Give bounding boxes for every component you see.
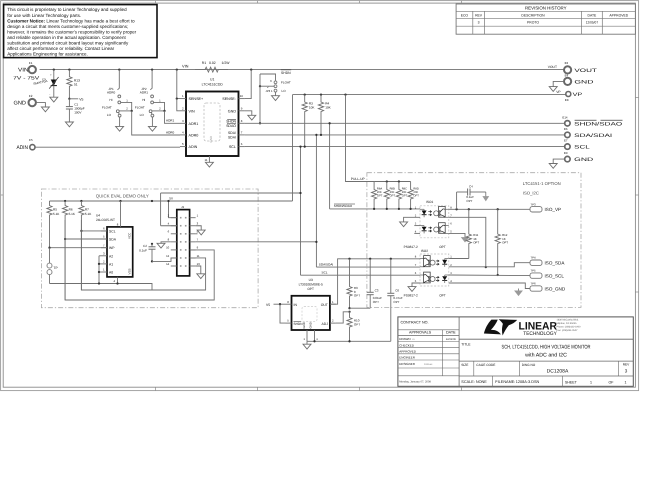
wire JP1 LO to ground <box>119 117 121 126</box>
resistor R3 10K <box>302 95 307 147</box>
IC U4 24LC025-IST <box>107 227 133 277</box>
wire TP to gnd rail <box>49 275 51 284</box>
svg-text:14: 14 <box>166 262 170 266</box>
svg-text:C4: C4 <box>469 185 473 189</box>
wire ADR0 net <box>132 111 180 135</box>
U3 pin 2 ADJ <box>330 322 336 324</box>
capacitor C2 0.1uF <box>151 243 153 245</box>
test point ISO_SCL <box>530 273 542 278</box>
ground at JP2 <box>148 126 156 131</box>
svg-text:20K: 20K <box>413 191 418 194</box>
svg-text:U3: U3 <box>309 278 313 282</box>
svg-text:DWG NO: DWG NO <box>522 363 536 367</box>
svg-text:SIZE: SIZE <box>461 363 468 367</box>
svg-text:SCH, LTC4151CDD, HIGH VOLTAGE: SCH, LTC4151CDD, HIGH VOLTAGE MONITOR <box>502 345 591 351</box>
capacitor C1 1000pF 100V <box>68 99 70 107</box>
wire ISO1 pin4 stub <box>414 232 420 234</box>
wire E9 to ground <box>553 159 565 163</box>
wire U3 OUT to iso rail <box>330 259 420 304</box>
svg-text:+: + <box>50 73 52 77</box>
svg-text:1: 1 <box>625 380 627 384</box>
resistor R13 51 <box>67 70 72 99</box>
svg-text:LD: LD <box>412 338 415 341</box>
svg-text:J1: J1 <box>181 205 185 209</box>
svg-text:V5: V5 <box>79 97 83 101</box>
wire SDA drop <box>315 135 317 267</box>
wire gnd rail C <box>65 220 214 300</box>
ground at U3 <box>306 341 308 344</box>
U4 VCC pin 8 <box>120 201 122 227</box>
svg-text:12/05/07: 12/05/07 <box>586 21 599 25</box>
wire ISO1 pin2 to ground <box>404 217 420 222</box>
J1 pin 14 <box>171 265 177 267</box>
svg-text:OPT: OPT <box>466 199 472 203</box>
resistor R8C 20K <box>396 182 401 209</box>
svg-text:Fax: (408)434-0507: Fax: (408)434-0507 <box>557 329 579 332</box>
wire U1 GND pin to ground <box>245 111 252 116</box>
svg-text:VIN: VIN <box>18 68 29 74</box>
wire JP2 common <box>152 110 164 112</box>
svg-text:ISO_SDA: ISO_SDA <box>545 261 566 266</box>
terminal E14 SHDN/SDAO <box>565 121 570 126</box>
svg-text:ISO_VP: ISO_VP <box>545 207 562 212</box>
svg-text:OPT: OPT <box>377 195 383 198</box>
U1 pin 2 VIN <box>180 110 186 112</box>
node SENSE+ junction <box>176 97 178 99</box>
svg-text:ADR0: ADR0 <box>166 130 175 134</box>
wire U1 SENSE- to VIN rail <box>245 70 251 99</box>
svg-text:LO: LO <box>140 113 145 117</box>
ground at U1 pad <box>205 162 213 167</box>
J1 pin 6 <box>171 233 177 235</box>
svg-text:E9: E9 <box>564 151 568 155</box>
resistor R9 0 OPT <box>347 259 352 308</box>
svg-text:DESIGNER: DESIGNER <box>399 362 416 366</box>
svg-text:GND: GND <box>302 322 306 328</box>
node VP junctions <box>304 93 306 95</box>
resistor R10 OPT <box>347 312 352 342</box>
wire V5 to U3 IN <box>274 303 286 305</box>
svg-text:20K: 20K <box>377 191 382 194</box>
svg-text:VOUT: VOUT <box>548 65 557 69</box>
svg-text:OPT: OPT <box>439 294 446 298</box>
wire ISO2 pin4 ISO_GND rail <box>449 283 530 289</box>
wire pullup top rail <box>374 181 411 183</box>
ground at J1 pin8 <box>157 243 165 248</box>
terminal E8 VP <box>566 92 571 97</box>
terminal E4 GND <box>564 78 571 85</box>
svg-text:CONTRACT NO.: CONTRACT NO. <box>401 320 429 324</box>
svg-text:REVISION HISTORY: REVISION HISTORY <box>525 5 567 10</box>
svg-text:11: 11 <box>197 254 200 258</box>
wire SDA/SDAI rail to E6 <box>245 134 564 136</box>
wire ISO1 pin5 to ground <box>449 233 465 237</box>
svg-text:20K: 20K <box>402 191 407 194</box>
svg-text:V5: V5 <box>266 303 270 307</box>
svg-text:10K: 10K <box>325 106 331 110</box>
wire JP3 pin1 to ground <box>275 92 277 96</box>
wire R11 to ISO2 pin1 <box>449 258 469 260</box>
svg-text:Applications Engineering for a: Applications Engineering for assistance. <box>7 52 88 57</box>
svg-text:TECHNOLOGY: TECHNOLOGY <box>523 331 557 337</box>
node JP3 to pin8 rail <box>259 122 261 124</box>
resistor R8A 20K <box>372 182 377 209</box>
svg-text:E4: E4 <box>565 73 569 77</box>
wire SDA row to U4 <box>65 238 107 240</box>
svg-text:GND: GND <box>574 79 594 85</box>
wire V5 to U3 SHDN <box>280 304 286 323</box>
svg-text:ADR0: ADR0 <box>107 90 116 94</box>
svg-text:VIN: VIN <box>182 64 189 69</box>
svg-text:E2: E2 <box>29 94 33 98</box>
terminal E2 GND <box>29 99 36 106</box>
svg-text:SHEET: SHEET <box>565 380 578 384</box>
svg-text:12: 12 <box>166 254 170 258</box>
svg-text:E1: E1 <box>29 61 33 65</box>
terminal E7 SCL <box>565 144 570 149</box>
resistor R6 5.1K <box>62 201 67 300</box>
J1 pin 12 <box>171 257 177 259</box>
wire ISO_VP rail <box>449 208 530 210</box>
wire U4 address pins <box>98 256 100 284</box>
svg-text:ADR0: ADR0 <box>189 134 199 138</box>
capacitor C4 0.1uF <box>456 192 458 209</box>
wire SCL drop <box>300 147 302 276</box>
node VIN junctions <box>53 68 55 70</box>
svg-text:OF: OF <box>609 380 615 384</box>
ground at J1 pin13 <box>197 274 205 279</box>
wire SCL link rail <box>161 225 177 227</box>
J1 pin 7 <box>190 241 196 243</box>
svg-text:3: 3 <box>478 21 480 25</box>
wire E2 to ground <box>36 103 45 107</box>
wire V5 stub <box>69 98 78 100</box>
wire J1 pin8 to ground <box>161 242 171 243</box>
resistor R7 5.1K <box>79 201 84 290</box>
wire ISO2 pin2 ISO_SDA rail <box>449 263 530 267</box>
svg-text:SCALE: NONE: SCALE: NONE <box>461 380 487 384</box>
svg-text:ADR1: ADR1 <box>189 122 199 126</box>
J1 pin 2 <box>171 217 177 219</box>
wire JP1 float pin <box>121 102 132 110</box>
wire JP2 LO to ground <box>151 117 153 126</box>
U4 VSS pin 4 <box>117 277 119 284</box>
wire U3 ground rail <box>307 340 391 342</box>
terminal E6 SDA/SDAI <box>565 132 570 137</box>
U1 pin 8 SHDN-SDAO <box>239 122 245 124</box>
svg-text:SHDN/SDAO: SHDN/SDAO <box>574 121 622 127</box>
wire J1 pin13 to ground <box>196 266 201 274</box>
wire J1 pin3 to ground <box>196 226 202 230</box>
ground at ISO1 pin2 <box>400 222 408 227</box>
svg-text:GND: GND <box>574 157 594 163</box>
svg-text:VP: VP <box>573 92 583 98</box>
svg-text:CHECKED: CHECKED <box>399 343 415 347</box>
svg-text:ADR1: ADR1 <box>140 90 149 94</box>
svg-text:5.1K: 5.1K <box>53 212 60 216</box>
svg-text:APPROVALS: APPROVALS <box>409 331 432 335</box>
svg-text:PS9817-2: PS9817-2 <box>404 294 418 298</box>
optocoupler ISO2 PS9817-2 <box>420 254 449 286</box>
test point ISO_SDA <box>530 260 542 265</box>
J1 pin 10 <box>171 249 177 251</box>
node R8D bottom <box>409 208 411 210</box>
svg-text:OPT: OPT <box>393 300 399 304</box>
svg-text:A1: A1 <box>109 262 113 266</box>
node 5V junctions <box>64 200 66 202</box>
svg-text:100V: 100V <box>74 111 82 115</box>
svg-text:Monday, January 07, 2008: Monday, January 07, 2008 <box>399 380 431 383</box>
U4 pin 2 A1 <box>101 263 107 265</box>
svg-text:HI: HI <box>109 98 112 102</box>
node ISO_VP junctions <box>455 208 457 210</box>
capacitor C3 0.01uF OPT <box>369 259 371 293</box>
node R12 bottom <box>497 274 499 276</box>
ground at ISO_GND <box>518 289 520 292</box>
svg-text:design a circuit that meets cu: design a circuit that meets customer-sup… <box>7 24 128 29</box>
wire VP to pullup rail <box>346 95 375 182</box>
svg-text:TP5: TP5 <box>530 269 536 273</box>
wire SCL rail <box>301 274 421 276</box>
svg-text:SENSE-: SENSE- <box>222 97 237 101</box>
svg-text:13: 13 <box>197 262 201 266</box>
svg-text:substitution and printed circu: substitution and printed circuit board l… <box>7 41 129 46</box>
svg-text:DATE: DATE <box>588 14 598 18</box>
svg-text:ADIN: ADIN <box>189 145 198 149</box>
Linear Technology logo <box>484 319 557 337</box>
wire J1 pin5 stub <box>196 233 198 235</box>
svg-text:TITLE: TITLE <box>461 342 471 346</box>
svg-text:VIN: VIN <box>189 109 195 113</box>
svg-text:0.1uF: 0.1uF <box>139 249 147 253</box>
wire SHDN/SDAO iso rail <box>330 208 420 210</box>
svg-text:LO: LO <box>107 113 112 117</box>
wire ISO2 pin3 ISO_SCL rail <box>449 274 530 277</box>
U4 pin 6 SCL <box>101 230 107 232</box>
svg-text:DC1208A: DC1208A <box>547 368 569 374</box>
svg-text:C6: C6 <box>395 289 399 293</box>
wire 5V rail <box>50 200 293 202</box>
svg-text:OPT: OPT <box>354 322 360 326</box>
svg-text:DATE: DATE <box>446 331 456 335</box>
svg-text:E8: E8 <box>565 98 569 102</box>
ground at ISO1 pin5 <box>462 238 469 242</box>
svg-text:D.Rivas: D.Rivas <box>424 363 433 366</box>
svg-text:ISO_SCL: ISO_SCL <box>545 274 565 279</box>
svg-text:SDA/SDAI: SDA/SDAI <box>319 262 334 266</box>
svg-text:10K: 10K <box>309 106 315 110</box>
svg-text:10: 10 <box>240 94 244 98</box>
J1 pin 1 <box>190 217 196 219</box>
node JP2 junction <box>163 110 165 112</box>
wire ADJ feedback <box>348 311 350 313</box>
node R4 bottom <box>320 134 322 136</box>
svg-text:ISO_I2C: ISO_I2C <box>523 191 539 196</box>
svg-text:LTC4151-1 OPTION: LTC4151-1 OPTION <box>523 181 561 186</box>
border zone ticks bottom <box>155 387 157 390</box>
node iso 5V junctions <box>348 258 350 260</box>
svg-text:OPT: OPT <box>354 294 360 298</box>
svg-text:ISO_GND: ISO_GND <box>545 286 566 291</box>
ground at JP3 <box>272 96 280 101</box>
svg-text:ADIN: ADIN <box>17 145 29 151</box>
svg-text:TP6: TP6 <box>530 282 536 286</box>
U3 GND pins <box>306 330 308 341</box>
svg-text:11: 11 <box>205 158 208 162</box>
svg-text:OPT: OPT <box>439 245 446 249</box>
U3 pin 8 IN <box>286 303 292 305</box>
svg-text:3: 3 <box>625 369 628 374</box>
svg-text:SCL: SCL <box>322 271 328 275</box>
optocoupler ISO1 PS9817-2 <box>420 206 449 238</box>
svg-text:U1: U1 <box>210 78 214 82</box>
node JP1 junction <box>131 110 133 112</box>
svg-text:IN: IN <box>294 303 298 307</box>
svg-text:C3: C3 <box>375 289 379 293</box>
svg-text:GND: GND <box>209 135 213 143</box>
U1 pin 1 SENSE+ <box>180 98 186 100</box>
LTC4151-1 option box <box>367 173 581 308</box>
U1 pin 5 ADIN <box>180 146 186 148</box>
U1 pin 9 GND <box>239 110 245 112</box>
J1 pin 11 <box>190 257 196 259</box>
wire C3 to R9 node <box>350 307 371 309</box>
IC U3 LT3010EMS8E-5 <box>292 296 330 330</box>
node R3 bottom <box>304 145 306 147</box>
ground at C4 <box>481 191 486 193</box>
ground at JP1 <box>116 126 124 131</box>
svg-text:Customer Notice: Linear Techno: Customer Notice: Linear Technology has m… <box>7 18 135 23</box>
svg-text:5.1K: 5.1K <box>85 212 92 216</box>
wire gnd rail A <box>50 284 153 291</box>
svg-text:R8D: R8D <box>413 187 418 190</box>
svg-text:51: 51 <box>74 83 78 87</box>
svg-text:OUT: OUT <box>321 303 328 307</box>
svg-text:OPT: OPT <box>473 240 479 244</box>
wire WP row to U4 <box>50 247 108 249</box>
svg-text:1/2W: 1/2W <box>222 61 231 65</box>
capacitor C6 0.47uF OPT <box>390 259 392 294</box>
U4 pin 5 SDA <box>101 238 107 240</box>
svg-text:GND: GND <box>309 322 313 328</box>
svg-text:PULL-UP: PULL-UP <box>351 177 366 181</box>
svg-text:however, it remains the custom: however, it remains the customer's respo… <box>7 29 136 34</box>
svg-text:E7: E7 <box>564 139 568 143</box>
svg-text:ADR1: ADR1 <box>166 119 175 123</box>
terminal E1 VIN <box>29 66 36 73</box>
svg-text:HI: HI <box>142 98 145 102</box>
svg-text:SDA: SDA <box>109 238 117 242</box>
svg-text:GND: GND <box>14 101 27 107</box>
jumper JP2 ADR1 <box>150 70 152 90</box>
svg-text:SCL: SCL <box>109 229 116 233</box>
node V5 junction <box>68 98 70 100</box>
svg-text:OPT: OPT <box>502 240 508 244</box>
wire JP3 common to SHDN net <box>260 85 274 87</box>
wire ADR1 net <box>165 111 181 124</box>
U1 pin 3 ADR1 <box>180 122 186 124</box>
U4 pin 7 WP <box>101 247 107 249</box>
svg-text:0.02: 0.02 <box>209 61 216 65</box>
svg-text:10: 10 <box>166 246 170 250</box>
svg-text:E5: E5 <box>29 138 33 142</box>
svg-text:ENGINEER: ENGINEER <box>399 356 416 360</box>
svg-text:FLOAT: FLOAT <box>281 81 291 85</box>
svg-text:5.1K: 5.1K <box>69 212 76 216</box>
U1 pin 10 SENSE- <box>239 98 245 100</box>
title block frame <box>398 317 633 386</box>
node ISO1 pin7 to SDA rail <box>485 266 487 268</box>
svg-text:R1: R1 <box>202 61 206 65</box>
node R9 bottom <box>348 307 350 309</box>
svg-text:SDAO: SDAO <box>226 124 236 128</box>
svg-text:R8C: R8C <box>402 187 407 190</box>
ground at E9 <box>549 164 557 169</box>
test point ISO_GND <box>530 286 542 291</box>
U1 pin 4 ADR0 <box>180 134 186 136</box>
svg-text:ECO: ECO <box>461 14 469 18</box>
svg-text:VOUT: VOUT <box>574 68 597 74</box>
svg-text:This circuit is proprietary to: This circuit is proprietary to Linear Te… <box>7 7 127 12</box>
terminal E5 ADIN <box>30 145 35 150</box>
svg-text:SCL: SCL <box>574 145 590 151</box>
svg-text:SDA/: SDA/ <box>228 131 236 135</box>
wire SHDN drop <box>329 123 331 209</box>
wire ADIN to U1 pin5 <box>35 146 180 148</box>
svg-text:SDA/SDAI: SDA/SDAI <box>574 133 612 139</box>
ground at ISO2 pin5 <box>408 287 416 292</box>
ground at E4 <box>549 87 557 92</box>
svg-text:1208A-3.DSN: 1208A-3.DSN <box>516 380 540 384</box>
wire U1 VIN pin <box>177 99 180 111</box>
svg-text:affect circuit performance or: affect circuit performance or reliabilit… <box>7 46 114 51</box>
svg-text:A2: A2 <box>109 254 113 258</box>
wire ISO1 pin3 stub <box>414 225 420 227</box>
svg-text:OPT: OPT <box>390 195 396 198</box>
resistor R12 1K OPT <box>495 209 500 275</box>
svg-text:E14: E14 <box>562 115 568 119</box>
wire ISO1 pin7 to SDA iso <box>449 217 486 267</box>
svg-text:PS9817-2: PS9817-2 <box>404 245 418 249</box>
J1 pin 3 <box>190 225 196 227</box>
svg-text:SHDN: SHDN <box>281 71 291 75</box>
U1 exposed pad <box>204 103 220 141</box>
svg-text:OPT: OPT <box>413 195 419 198</box>
wire SDA/SDAI rail <box>316 266 420 268</box>
svg-text:FLOAT: FLOAT <box>102 105 112 109</box>
svg-text:for use with Linear Technology: for use with Linear Technology parts. <box>7 13 81 18</box>
svg-text:REV: REV <box>475 14 483 18</box>
svg-text:24LC025-IST: 24LC025-IST <box>96 218 115 222</box>
svg-text:OPT: OPT <box>307 287 314 291</box>
node R8A bottom <box>373 208 375 210</box>
svg-text:with ADC and I2C: with ADC and I2C <box>525 353 567 359</box>
svg-text:SENSE+: SENSE+ <box>189 97 204 101</box>
wire U1 SENSE+ to VIN rail <box>177 70 180 99</box>
svg-text:REV: REV <box>623 363 630 367</box>
svg-text:R8A: R8A <box>377 187 382 190</box>
wire SCL rail to E7 <box>245 146 564 148</box>
svg-text:OPT: OPT <box>402 195 408 198</box>
jumper JP1 ADR0 <box>118 70 120 90</box>
svg-text:LTC4151CDD: LTC4151CDD <box>202 83 224 87</box>
svg-text:20K: 20K <box>390 191 395 194</box>
wire SHDN/SDAO rail to E14 <box>245 122 564 124</box>
U4 pin 1 A0 <box>101 271 107 273</box>
resistor R4 10K <box>318 95 323 135</box>
svg-text:CAGE CODE: CAGE CODE <box>476 363 495 367</box>
border zone ticks left-right <box>1 194 4 196</box>
